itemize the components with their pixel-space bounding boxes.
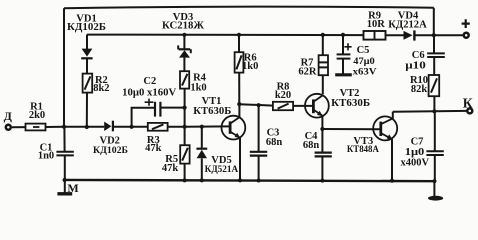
resistor R3 bbox=[148, 123, 168, 131]
svg-text:47k: 47k bbox=[162, 163, 179, 174]
wire C6 to R10 bbox=[433, 57, 435, 75]
transistor VT2 bbox=[305, 94, 329, 118]
wire C2 right branch bbox=[161, 107, 185, 109]
wire input to R1 bbox=[12, 126, 26, 128]
capacitor C3 bbox=[250, 152, 267, 156]
svg-text:КД102Б: КД102Б bbox=[93, 145, 128, 156]
svg-text:10R: 10R bbox=[367, 19, 386, 30]
wire supply rail to R7 bbox=[322, 35, 324, 55]
wire VD1 anode to supply rail bbox=[86, 35, 88, 50]
wire R3 to node B bbox=[168, 126, 185, 128]
resistor R4 bbox=[180, 71, 189, 88]
resistor R1 bbox=[26, 124, 46, 131]
wire C4 to bottom rail bbox=[321, 157, 323, 181]
wire collector node to R8 bbox=[239, 104, 273, 105]
capacitor C1 bbox=[56, 152, 73, 156]
svg-text:62R: 62R bbox=[298, 66, 317, 77]
terminal plus bbox=[464, 33, 469, 38]
wire R2 to signal node bbox=[86, 93, 88, 127]
wire VT2 emitter down bbox=[321, 116, 323, 153]
junction VT1 emitter bottom rail bbox=[238, 178, 242, 182]
wire C3 to bottom rail bbox=[258, 156, 260, 181]
wire VD1 cathode to R2 bbox=[86, 59, 88, 74]
transistor VT3 bbox=[373, 116, 397, 140]
junction C7 bottom rail bbox=[433, 179, 437, 183]
junction node A (input) bbox=[62, 125, 66, 129]
wire node A to VD2 bbox=[64, 126, 104, 128]
svg-text:82k: 82k bbox=[411, 84, 428, 95]
terminal D (input) bbox=[6, 125, 11, 130]
svg-text:КД212А: КД212А bbox=[388, 20, 427, 31]
junction R5 bottom rail bbox=[183, 178, 187, 182]
wire bottom rail bbox=[64, 180, 435, 181]
wire R6 to VT1 collector node bbox=[238, 73, 240, 104]
junction R6 at supply rail bbox=[237, 33, 241, 37]
svg-text:2k0: 2k0 bbox=[29, 110, 45, 121]
svg-text:КТ630Б: КТ630Б bbox=[193, 106, 231, 117]
junction node B upper bbox=[183, 106, 187, 110]
svg-text:47k: 47k bbox=[145, 143, 162, 154]
svg-text:C2: C2 bbox=[143, 76, 156, 87]
wire VD3 to R4 bbox=[183, 58, 185, 72]
junction R10 C7 at K wire bbox=[432, 109, 436, 113]
VT2 emitter arrow bbox=[317, 111, 323, 117]
wire M ground stub bbox=[64, 180, 66, 193]
capacitor C4 bbox=[315, 153, 332, 157]
resistor R2 bbox=[83, 74, 93, 93]
svg-text:μ10: μ10 bbox=[405, 61, 426, 72]
junction VD5 bottom rail bbox=[200, 178, 204, 182]
wire supply rail to R6 bbox=[238, 35, 240, 52]
resistor R6 bbox=[235, 52, 244, 72]
svg-text:КД521А: КД521А bbox=[205, 164, 239, 175]
wire R8 to VT2 base bbox=[293, 105, 313, 107]
svg-text:10μ0 x160V: 10μ0 x160V bbox=[122, 88, 177, 99]
wire VT3 collector up bbox=[392, 112, 394, 119]
junction VD5 top bbox=[200, 125, 204, 129]
C5 plus sign bbox=[344, 43, 351, 50]
svg-text:КС218Ж: КС218Ж bbox=[162, 21, 204, 32]
ground bar right (blob) bbox=[428, 196, 443, 201]
ground bar under C5 bbox=[335, 73, 352, 76]
wire R5 to bottom rail bbox=[184, 164, 186, 181]
diode VD1 bbox=[81, 49, 92, 60]
plus sign at terminal bbox=[462, 19, 470, 28]
resistor R5 bbox=[180, 145, 189, 163]
diode VD5 bbox=[196, 148, 207, 159]
svg-text:8k2: 8k2 bbox=[93, 83, 109, 94]
diode VD4 bbox=[404, 30, 416, 40]
wire C3 tap down bbox=[258, 105, 260, 152]
ground bar M terminal bbox=[57, 192, 72, 195]
junction VT1 collector node bbox=[237, 102, 241, 106]
transistor VT1 bbox=[222, 116, 246, 140]
junction VT2 emitter node bbox=[320, 127, 324, 131]
wire supply rail to C5 bbox=[342, 35, 344, 54]
wire supply junction to C6 bbox=[433, 35, 435, 53]
junction C2 left bbox=[130, 125, 134, 129]
junction C4 bottom rail bbox=[320, 179, 324, 183]
wire R4 to node B bbox=[184, 89, 186, 127]
svg-text:k20: k20 bbox=[275, 90, 291, 101]
wire left vertical (top rail to input node) bbox=[63, 8, 65, 127]
wire top rail bbox=[64, 7, 434, 9]
svg-text:М: М bbox=[67, 181, 78, 195]
wire VD5 to bottom rail bbox=[201, 158, 203, 180]
capacitor C5 bbox=[337, 54, 351, 58]
junction node B bbox=[183, 125, 187, 129]
wire R10 to K wire bbox=[433, 96, 435, 111]
wire VT2 emitter to VT3 base bbox=[322, 128, 379, 130]
junction C3 top bbox=[257, 103, 261, 107]
wire C1 to bottom rail bbox=[64, 155, 66, 180]
junction R2 bottom bbox=[85, 125, 89, 129]
C2 plus sign bbox=[145, 99, 154, 106]
svg-text:КТ848А: КТ848А bbox=[347, 144, 379, 155]
wire R1 to node A bbox=[46, 126, 64, 128]
svg-text:1k0: 1k0 bbox=[242, 61, 258, 72]
resistor R8 bbox=[273, 102, 293, 110]
wire VT3 emitter to bottom rail bbox=[391, 139, 393, 181]
wire supply rail VD4 to plus terminal bbox=[414, 34, 464, 36]
svg-text:47μ0: 47μ0 bbox=[353, 57, 375, 67]
svg-text:C6: C6 bbox=[412, 50, 425, 61]
resistor R9 bbox=[364, 31, 386, 40]
svg-text:C7: C7 bbox=[411, 137, 424, 148]
wire VT1 emitter to bottom rail bbox=[239, 138, 241, 181]
diode VD2 bbox=[104, 121, 114, 132]
capacitor C6 bbox=[427, 53, 445, 57]
wire R7 to VT2 collector bbox=[322, 75, 324, 94]
svg-text:К: К bbox=[463, 95, 473, 110]
wire C7 to bottom rail bbox=[434, 155, 436, 181]
wire C2 left branch bbox=[132, 108, 155, 127]
junction R7 at supply rail bbox=[321, 33, 325, 37]
svg-text:68n: 68n bbox=[303, 140, 320, 151]
VT1 emitter arrow bbox=[235, 133, 241, 139]
wire supply rail R9 to VD4 bbox=[386, 34, 404, 36]
resistor R7 bbox=[319, 55, 328, 75]
capacitor C2 bbox=[155, 102, 160, 117]
wire right vertical (top rail to supply rail) bbox=[433, 8, 435, 35]
junction C5 at supply rail bbox=[341, 33, 345, 37]
wire node B to R5 bbox=[184, 127, 186, 145]
svg-text:1n0: 1n0 bbox=[38, 151, 54, 162]
svg-text:1μ0: 1μ0 bbox=[405, 147, 425, 158]
wire input node to C1 bbox=[63, 127, 65, 152]
svg-text:КД102Б: КД102Б bbox=[67, 22, 106, 33]
resistor R10 bbox=[429, 75, 440, 96]
junction C1 bottom rail bbox=[63, 178, 67, 182]
svg-text:68n: 68n bbox=[266, 137, 283, 148]
wire collector to K terminal bbox=[393, 110, 467, 113]
wire VD2 to node C2R3 bbox=[113, 126, 148, 128]
capacitor C7 bbox=[426, 151, 443, 155]
VT3 emitter arrow bbox=[387, 134, 393, 140]
svg-text:КТ630Б: КТ630Б bbox=[331, 98, 370, 109]
wire signal to VD5 bbox=[201, 127, 203, 148]
zener diode VD3 bbox=[177, 45, 192, 57]
svg-text:1k0: 1k0 bbox=[190, 82, 206, 93]
wire node B to VT1 base bbox=[185, 125, 230, 127]
wire supply rail to VD3 bbox=[183, 35, 185, 50]
svg-text:C5: C5 bbox=[357, 45, 370, 56]
terminal K bbox=[467, 108, 472, 113]
svg-text:Д: Д bbox=[4, 109, 13, 123]
junction VD3 at supply rail bbox=[182, 33, 186, 37]
wire VT1 collector bbox=[238, 104, 240, 117]
svg-text:x63V: x63V bbox=[353, 68, 377, 78]
wire right ground stub bbox=[433, 181, 435, 196]
junction C3 bottom rail bbox=[257, 179, 261, 183]
junction VT3 emitter bottom rail bbox=[390, 179, 394, 183]
wire supply rail left section bbox=[87, 34, 364, 37]
wire C5 to ground stub bbox=[342, 59, 344, 74]
wire K wire to C7 bbox=[434, 111, 436, 151]
junction C6 at supply rail bbox=[432, 33, 436, 37]
svg-text:x400V: x400V bbox=[401, 158, 430, 169]
